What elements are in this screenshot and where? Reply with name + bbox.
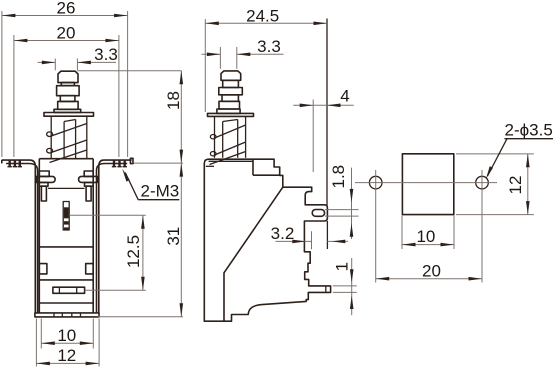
svg-text:31: 31 — [164, 227, 183, 246]
svg-text:4: 4 — [340, 86, 349, 105]
svg-text:3.2: 3.2 — [271, 224, 295, 243]
svg-text:10: 10 — [57, 326, 76, 345]
svg-text:20: 20 — [422, 261, 441, 280]
svg-text:2-M3: 2-M3 — [141, 181, 180, 200]
svg-text:26: 26 — [57, 0, 76, 18]
svg-text:18: 18 — [164, 91, 183, 110]
svg-text:10: 10 — [416, 227, 435, 246]
svg-text:2-ϕ3.5: 2-ϕ3.5 — [505, 120, 553, 139]
svg-text:12.5: 12.5 — [124, 235, 143, 268]
svg-text:3.3: 3.3 — [257, 37, 281, 56]
svg-text:3.3: 3.3 — [94, 45, 118, 64]
svg-text:1: 1 — [332, 262, 351, 271]
svg-text:12: 12 — [506, 176, 525, 195]
svg-text:12: 12 — [57, 346, 76, 365]
svg-text:1.8: 1.8 — [329, 165, 348, 189]
svg-text:20: 20 — [57, 24, 76, 43]
svg-text:24.5: 24.5 — [246, 6, 279, 25]
